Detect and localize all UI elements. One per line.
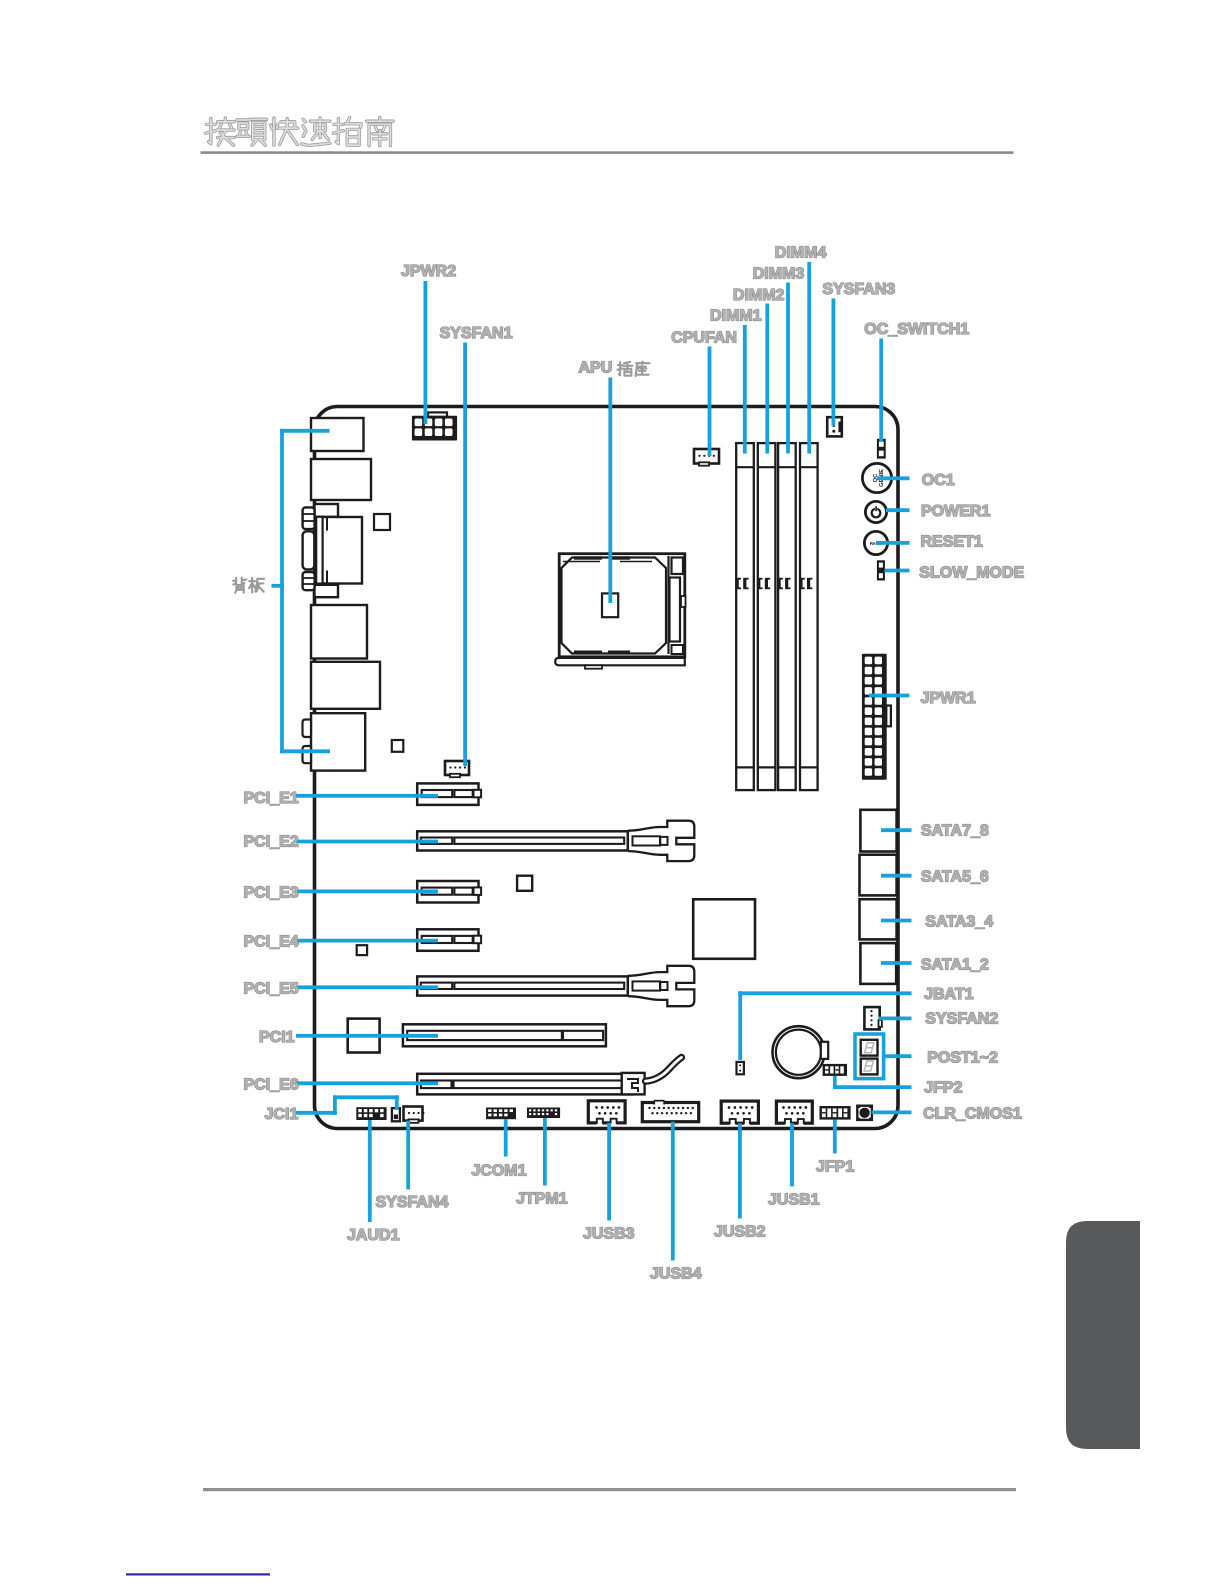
svg-text:PCI_E5: PCI_E5 <box>244 980 299 997</box>
svg-text:SLOW_MODE: SLOW_MODE <box>919 564 1024 581</box>
svg-text:JFP1: JFP1 <box>816 1159 854 1176</box>
svg-text:SATA5_6: SATA5_6 <box>921 869 989 886</box>
svg-text:SATA7_8: SATA7_8 <box>921 823 989 840</box>
svg-text:PCI_E6: PCI_E6 <box>244 1076 299 1093</box>
svg-text:RESET1: RESET1 <box>921 533 983 550</box>
svg-text:JFP2: JFP2 <box>924 1080 962 1097</box>
svg-text:APU: APU <box>579 360 613 377</box>
svg-text:PCI1: PCI1 <box>259 1029 295 1046</box>
svg-text:SYSFAN1: SYSFAN1 <box>440 325 513 342</box>
svg-text:PCI_E4: PCI_E4 <box>244 934 299 951</box>
svg-text:JPWR2: JPWR2 <box>401 263 456 280</box>
svg-text:JAUD1: JAUD1 <box>347 1227 400 1244</box>
svg-text:PCI_E3: PCI_E3 <box>244 884 299 901</box>
svg-text:CPUFAN: CPUFAN <box>671 330 737 347</box>
svg-text:DIMM1: DIMM1 <box>710 308 762 325</box>
svg-text:JBAT1: JBAT1 <box>924 986 974 1003</box>
svg-text:PCI_E2: PCI_E2 <box>244 834 299 851</box>
svg-text:SYSFAN2: SYSFAN2 <box>925 1011 998 1028</box>
svg-text:JUSB3: JUSB3 <box>583 1226 635 1243</box>
svg-text:JTPM1: JTPM1 <box>516 1191 568 1208</box>
svg-text:SATA1_2: SATA1_2 <box>921 956 989 973</box>
svg-text:JCOM1: JCOM1 <box>471 1163 526 1180</box>
svg-text:SYSFAN4: SYSFAN4 <box>376 1194 449 1211</box>
svg-text:JCI1: JCI1 <box>265 1106 299 1123</box>
svg-text:DIMM2: DIMM2 <box>733 287 785 304</box>
svg-text:SATA3_4: SATA3_4 <box>925 914 993 931</box>
svg-text:POST1~2: POST1~2 <box>927 1050 998 1067</box>
svg-text:DIMM4: DIMM4 <box>775 245 827 262</box>
svg-text:JUSB4: JUSB4 <box>650 1266 702 1283</box>
svg-text:JUSB2: JUSB2 <box>714 1224 766 1241</box>
svg-text:PCI_E1: PCI_E1 <box>244 790 299 807</box>
svg-text:SYSFAN3: SYSFAN3 <box>822 281 895 298</box>
svg-text:POWER1: POWER1 <box>921 503 990 520</box>
svg-text:JPWR1: JPWR1 <box>921 690 976 707</box>
svg-text:DIMM3: DIMM3 <box>753 266 805 283</box>
svg-text:JUSB1: JUSB1 <box>768 1192 820 1209</box>
svg-text:CLR_CMOS1: CLR_CMOS1 <box>923 1106 1022 1123</box>
svg-text:OC_SWITCH1: OC_SWITCH1 <box>864 321 969 338</box>
svg-text:OC1: OC1 <box>922 472 955 489</box>
